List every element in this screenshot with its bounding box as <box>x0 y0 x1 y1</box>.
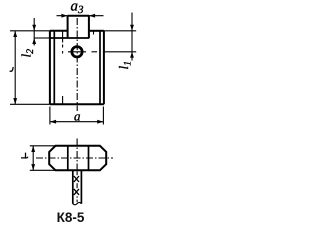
svg-text:a: a <box>74 109 81 124</box>
svg-text:l1: l1 <box>116 61 133 70</box>
svg-text:l2: l2 <box>19 49 36 58</box>
svg-text:a3: a3 <box>71 0 85 16</box>
